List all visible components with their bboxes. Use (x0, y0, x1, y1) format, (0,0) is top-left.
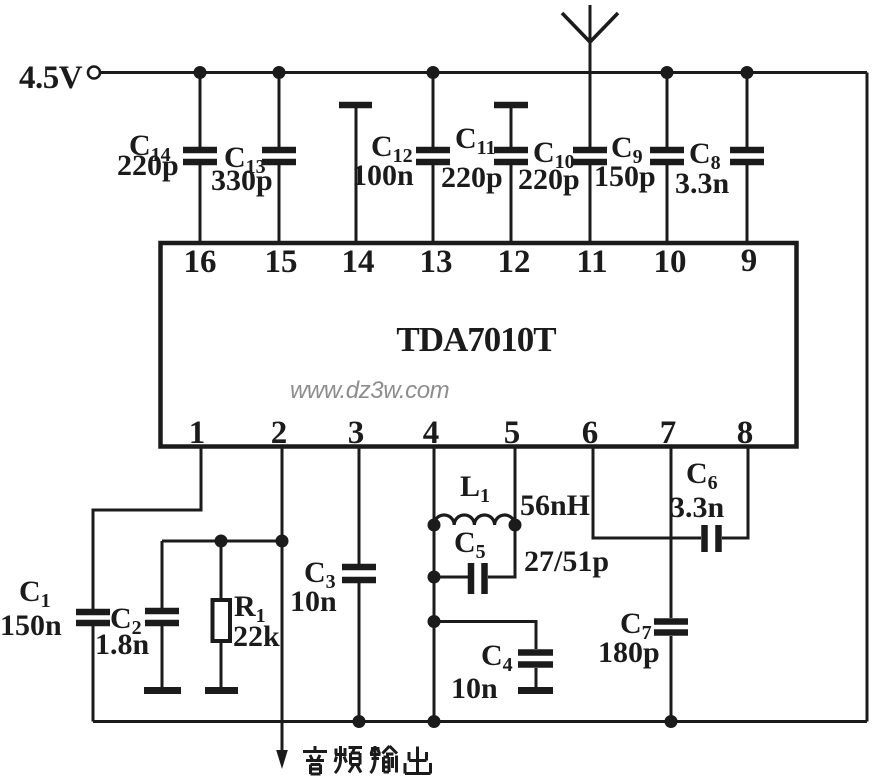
svg-text:220p: 220p (117, 149, 179, 182)
node junction dots on bottom rail (353, 715, 678, 728)
capacitor C14 (183, 150, 217, 162)
node 4.5V supply terminal (88, 67, 100, 79)
wire pin14 stub with bar terminal (339, 105, 372, 243)
node junction dots on pin4/pin5 leads (428, 519, 522, 629)
svg-text:56nH: 56nH (520, 489, 590, 522)
wire pin6 lead (593, 447, 701, 539)
svg-text:220p: 220p (441, 161, 503, 194)
wire pin2 lead (audio output) (281, 447, 284, 754)
wire pin12 stub with bar terminal (494, 105, 528, 243)
capacitor C11 (494, 150, 528, 162)
node junction C5 left (428, 571, 441, 584)
node junction C7/rail (665, 715, 678, 728)
svg-text:16: 16 (184, 244, 217, 280)
wire right edge vertical (866, 73, 869, 722)
svg-text:22k: 22k (233, 620, 280, 653)
capacitor C2 (145, 611, 179, 623)
svg-text:150p: 150p (594, 160, 656, 193)
svg-text:7: 7 (660, 415, 677, 451)
node junction C8/rail (741, 66, 754, 79)
label 音频输出 (audio output, drawn glyphs) (303, 746, 431, 774)
svg-text:10n: 10n (451, 672, 498, 705)
svg-text:6: 6 (582, 415, 599, 451)
svg-text:C6: C6 (686, 457, 718, 494)
svg-text:12: 12 (498, 244, 531, 280)
svg-text:15: 15 (265, 244, 298, 280)
wire C5 left connection (434, 576, 468, 579)
pin numbers top row (184, 243, 758, 280)
svg-text:3: 3 (348, 415, 365, 451)
inductor L1 (434, 515, 515, 525)
wire C4 branch (434, 622, 536, 650)
svg-text:www.dz3w.com: www.dz3w.com (290, 377, 449, 404)
antenna (562, 5, 618, 147)
svg-text:220p: 220p (518, 163, 580, 196)
wire pin15 branch (278, 73, 281, 244)
svg-text:180p: 180p (598, 636, 660, 669)
svg-text:150n: 150n (0, 609, 62, 642)
pin numbers bottom row (189, 415, 754, 451)
wire C1 to bottom rail (92, 626, 95, 722)
svg-text:2: 2 (271, 415, 288, 451)
ground bar under C4 (518, 687, 553, 694)
svg-text:TDA7010T: TDA7010T (396, 320, 556, 359)
wire bottom rail (93, 720, 867, 723)
wire pin13 branch (432, 73, 435, 244)
capacitor C12 (416, 150, 450, 162)
node junction C12/rail (427, 66, 440, 79)
svg-text:1.8n: 1.8n (95, 628, 150, 661)
wire pin16 branch (199, 73, 202, 244)
svg-text:10n: 10n (290, 585, 337, 618)
node junction C13/rail (273, 66, 286, 79)
node junction dots on bias wire (215, 535, 289, 548)
svg-text:L1: L1 (460, 470, 490, 507)
capacitor C13 (262, 150, 296, 162)
resistor R1 (213, 600, 231, 641)
wire R1 branch (220, 541, 223, 687)
node junction dots on top rail (194, 66, 754, 79)
svg-text:14: 14 (342, 244, 375, 280)
ground bar under C2 (144, 687, 181, 694)
wire pin3 lead (358, 447, 361, 722)
wire pin5 lead (488, 447, 515, 578)
svg-text:1: 1 (189, 415, 206, 451)
svg-text:3.3n: 3.3n (675, 167, 730, 200)
audio output arrow head (276, 750, 288, 769)
wire C2 branch (161, 541, 164, 687)
wire top supply rail (100, 71, 867, 74)
capacitor C6 (705, 525, 719, 552)
svg-text:3.3n: 3.3n (670, 491, 725, 524)
capacitor C3 (342, 567, 376, 580)
svg-text:C4: C4 (481, 639, 513, 676)
wire C4 to ground (535, 668, 538, 687)
svg-text:100n: 100n (352, 159, 414, 192)
svg-text:13: 13 (420, 244, 453, 280)
wire pin4 lead (433, 447, 436, 722)
svg-text:C1: C1 (19, 575, 51, 612)
node junction L1 right (509, 519, 522, 532)
node junction C4 branch (428, 615, 441, 628)
capacitor C7 (654, 622, 688, 633)
wire pin8 lead (722, 447, 748, 539)
node junction pin2/bias wire (276, 535, 289, 548)
wire pin11 branch below antenna (589, 165, 592, 243)
capacitor C5 (471, 563, 485, 594)
node junction pin4/rail (428, 715, 441, 728)
wire pin1 lead (93, 447, 201, 610)
wire pin7 lead (670, 447, 673, 722)
node junction pin3/rail (353, 715, 366, 728)
node junction C14/rail (194, 66, 207, 79)
node junction R1 top (215, 535, 228, 548)
svg-text:9: 9 (741, 243, 758, 279)
svg-text:4: 4 (423, 415, 440, 451)
svg-text:5: 5 (504, 415, 521, 451)
wire pin10 branch (666, 73, 669, 244)
node junction L1 left (428, 519, 441, 532)
capacitor C1 (76, 612, 110, 623)
svg-text:27/51p: 27/51p (524, 545, 609, 578)
svg-text:11: 11 (576, 244, 607, 280)
wire bias network horizontal (162, 540, 282, 543)
op-amp U1 TDA7010T IC body (161, 243, 797, 447)
capacitor C8 (730, 150, 764, 162)
capacitor C9 (650, 150, 684, 162)
node junction C9/rail (661, 66, 674, 79)
svg-text:C5: C5 (454, 526, 486, 563)
svg-text:10: 10 (654, 244, 687, 280)
svg-text:330p: 330p (211, 164, 273, 197)
svg-text:C11: C11 (455, 122, 496, 159)
ground bar under R1 (205, 687, 238, 694)
wire pin9 branch (746, 73, 749, 244)
svg-text:4.5V: 4.5V (19, 60, 83, 96)
capacitor C4 (518, 653, 553, 665)
capacitor C10 (573, 150, 607, 162)
svg-text:8: 8 (737, 415, 754, 451)
